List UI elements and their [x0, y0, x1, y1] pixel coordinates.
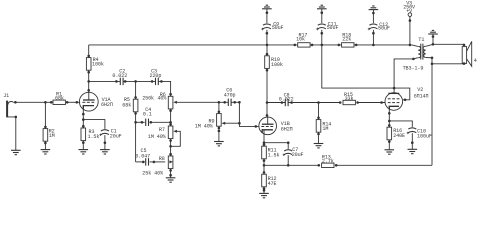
- svg-text:0.1: 0.1: [143, 112, 152, 118]
- wire R9 wiper: [225, 122, 240, 124]
- label C1 20uF: [110, 129, 122, 140]
- wire cathode to C1: [83, 120, 105, 129]
- resistor R13: [318, 163, 338, 167]
- triode V1A: [76, 89, 99, 111]
- ground up (speaker/secondary): [428, 30, 438, 34]
- label C10 100uF: [417, 128, 432, 139]
- svg-text:68k: 68k: [55, 96, 64, 102]
- label R3 1.5k: [88, 129, 100, 140]
- label V1B 6N2P: [281, 121, 293, 132]
- label T1: [418, 37, 424, 43]
- svg-text:20uF: 20uF: [292, 152, 304, 158]
- svg-text:250k: 250k: [142, 96, 154, 102]
- wire C11 branch lower: [321, 30, 323, 45]
- svg-text:0.022: 0.022: [112, 73, 127, 79]
- svg-text:100k: 100k: [271, 62, 283, 68]
- svg-text:0.022: 0.022: [279, 96, 294, 102]
- wire C12 branch lower: [372, 30, 374, 45]
- svg-text:40%: 40%: [157, 96, 167, 102]
- label R2 1M: [49, 129, 55, 140]
- wire cathode to C7 top: [264, 143, 288, 149]
- wire feedback row right: [336, 164, 432, 166]
- svg-text:50uF: 50uF: [378, 26, 390, 32]
- wire feedback riser: [431, 64, 433, 166]
- wire T1 secondary top to speaker: [426, 44, 464, 46]
- wire R10 branch / V1B plate: [266, 45, 268, 117]
- label 4 (speaker impedance): [474, 58, 477, 64]
- label V2 6P14P: [414, 87, 429, 99]
- wire R9 to ground: [218, 132, 220, 142]
- wire T1 secondary bottom: [426, 58, 432, 64]
- wire R14 branch: [318, 103, 320, 136]
- label R6 250k 40%: [142, 92, 167, 102]
- svg-text:1M 40%: 1M 40%: [148, 134, 167, 140]
- wire R14 to ground: [318, 136, 320, 144]
- svg-text:470p: 470p: [224, 93, 236, 99]
- svg-text:33k: 33k: [345, 96, 354, 102]
- wire C5 to R8 wiper: [150, 161, 166, 163]
- wire speaker bottom: [432, 63, 464, 65]
- ground (C1): [100, 150, 110, 154]
- speaker LS1 4ohm: [462, 41, 472, 66]
- svg-text:0.047: 0.047: [135, 153, 150, 159]
- wire V1A plate to C2: [89, 80, 121, 82]
- svg-text:1M: 1M: [49, 133, 55, 139]
- label R16 240E: [393, 128, 405, 139]
- pentode V2: [380, 87, 406, 111]
- potentiometer R7 (mid): [168, 123, 177, 148]
- svg-text:J1: J1: [3, 93, 9, 99]
- wire C1 to ground: [104, 135, 106, 150]
- label R12 47E: [268, 176, 277, 187]
- label C7 20uF: [292, 147, 304, 158]
- label C3 220p: [150, 68, 162, 78]
- wire C3 to R6 top: [158, 81, 170, 96]
- svg-text:100k: 100k: [92, 61, 104, 67]
- resistor R2: [43, 101, 48, 144]
- wire J1 tip to R1: [13, 101, 51, 103]
- label TB3-1-9: [403, 65, 424, 71]
- label V3 250V +V: [403, 1, 416, 15]
- capacitor C12: [368, 12, 378, 47]
- svg-text:100uF: 100uF: [417, 134, 432, 140]
- wire R5 branch: [135, 81, 137, 161]
- resistor R5: [133, 80, 138, 124]
- label C9 50uF: [272, 21, 284, 31]
- wire R9 branch: [218, 102, 220, 131]
- potentiometer R9 (volume): [217, 101, 226, 132]
- potentiometer R6 (treble): [168, 93, 177, 112]
- capacitor C2: [115, 78, 126, 85]
- label R4 100k: [92, 57, 104, 67]
- ground up (C12): [369, 6, 379, 10]
- resistor R1: [50, 100, 69, 104]
- ground up (C11): [317, 5, 327, 9]
- capacitor C9: [261, 11, 271, 34]
- wire R15 to V2 grid: [358, 102, 386, 104]
- wire V1B cathode chain: [263, 130, 265, 194]
- wire rail to T1 primary top: [412, 45, 418, 47]
- capacitor C11: [316, 11, 326, 46]
- wire R7 wiper loop: [171, 131, 181, 146]
- label R1 68k: [55, 92, 64, 102]
- svg-text:+V: +V: [406, 8, 413, 14]
- wire R1 to V1A grid: [67, 101, 80, 103]
- wire R5 to C5: [136, 161, 145, 163]
- wire C10 to ground: [411, 133, 413, 149]
- label R9 1M 40%: [195, 118, 215, 129]
- transformer T1: [412, 35, 434, 65]
- svg-text:6П14П: 6П14П: [414, 93, 429, 99]
- wire V1A plate branch (rail to tube): [88, 45, 90, 93]
- wire speaker ground stem: [432, 34, 434, 44]
- wire V1A cathode down: [82, 106, 84, 150]
- wire R2 branch: [44, 102, 46, 149]
- resistor R16: [387, 112, 392, 143]
- wire C9 branch upper: [266, 9, 268, 23]
- svg-text:22k: 22k: [342, 37, 351, 43]
- label R17 10k: [296, 32, 307, 42]
- svg-text:50uF: 50uF: [272, 25, 284, 31]
- wire C6 to junction: [231, 101, 239, 103]
- wire V1B plate node to C8: [267, 102, 285, 104]
- svg-text:6Н2П: 6Н2П: [101, 102, 113, 108]
- svg-text:220p: 220p: [150, 73, 162, 79]
- capacitor C5: [142, 158, 155, 165]
- capacitor C6: [223, 99, 240, 125]
- svg-text:1.5k: 1.5k: [88, 134, 100, 140]
- resistor R3: [81, 113, 86, 144]
- resistor R11: [262, 141, 267, 166]
- wire tone chain R6-R7-R8: [170, 94, 172, 178]
- ground (R12): [259, 193, 269, 197]
- label C5 0.047: [135, 148, 150, 159]
- resistor R15: [339, 100, 359, 104]
- label C2 0.022: [112, 68, 127, 78]
- wire C8 to R14 node: [288, 102, 340, 104]
- svg-text:R7: R7: [159, 127, 165, 133]
- resistor R12: [262, 171, 267, 192]
- resistor R4: [86, 55, 91, 83]
- capacitor C3: [151, 78, 163, 85]
- label J1: [3, 93, 9, 99]
- wire C11 branch upper: [321, 9, 323, 23]
- svg-text:2.7k: 2.7k: [322, 159, 334, 165]
- ground (R3): [79, 150, 89, 154]
- wire V3 supply stem: [409, 16, 411, 45]
- ground (R2): [41, 150, 51, 154]
- label R5 68k: [122, 97, 131, 108]
- wire C4 row left: [136, 121, 145, 123]
- svg-text:47E: 47E: [268, 181, 277, 187]
- potentiometer R8 (bass): [168, 153, 173, 177]
- label R10 100k: [271, 57, 283, 68]
- label C12 50uF: [378, 22, 390, 32]
- ground (R9): [214, 142, 224, 146]
- wire feedback row left: [264, 164, 319, 166]
- triode V1B: [255, 114, 277, 135]
- svg-text:240E: 240E: [393, 133, 405, 139]
- capacitor C10: [407, 128, 417, 144]
- svg-text:25k 40%: 25k 40%: [142, 170, 164, 176]
- label R11 1.5k: [268, 147, 280, 158]
- svg-text:20uF: 20uF: [110, 133, 122, 139]
- wire V2 plate to T1 primary: [394, 58, 418, 94]
- label R14 1M: [322, 121, 331, 132]
- label R13 2.7k: [322, 154, 334, 164]
- svg-text:T1: T1: [418, 37, 424, 43]
- wire C2 to C3: [123, 80, 155, 82]
- label R7 1M 40%: [148, 127, 167, 140]
- wire V2 cathode chain: [388, 106, 390, 150]
- ground (C10): [408, 149, 418, 153]
- ground (R14): [314, 144, 324, 148]
- wire g2 loop: [394, 88, 410, 100]
- svg-text:68k: 68k: [122, 102, 131, 108]
- resistor R17: [294, 43, 314, 47]
- wire R6 wiper to volume: [176, 101, 228, 103]
- label R18 22k: [342, 32, 351, 42]
- svg-text:6Н2П: 6Н2П: [281, 126, 293, 132]
- wire C9 branch lower: [266, 30, 268, 45]
- svg-text:50uF: 50uF: [327, 25, 339, 31]
- resistor R18: [338, 43, 358, 47]
- ground (R16): [385, 150, 395, 154]
- svg-text:R8: R8: [159, 156, 165, 162]
- wire C4 row right: [150, 121, 171, 123]
- wire B+ rail: [89, 44, 412, 46]
- capacitor C7: [283, 141, 293, 166]
- label C11 50uF: [327, 21, 339, 31]
- resistor R10: [265, 44, 270, 104]
- svg-text:1M 40%: 1M 40%: [195, 124, 214, 130]
- svg-text:4: 4: [474, 58, 477, 64]
- svg-text:TB3-1-9: TB3-1-9: [403, 65, 424, 71]
- capacitor C4: [141, 119, 172, 126]
- svg-text:1M: 1M: [322, 126, 328, 132]
- svg-text:10k: 10k: [296, 37, 305, 43]
- wire J1 sleeve to ground: [8, 117, 16, 150]
- ground (J1 sleeve): [11, 150, 21, 154]
- resistor R14: [316, 117, 321, 136]
- capacitor C1: [99, 130, 109, 144]
- label C4 0.1: [143, 107, 152, 118]
- svg-text:1.5k: 1.5k: [268, 152, 280, 158]
- label R15 33k: [344, 92, 354, 102]
- ground (R8): [166, 178, 176, 182]
- label C8 0.022: [279, 92, 294, 102]
- label V1A 6N2P: [101, 97, 113, 108]
- wire C7 bottom: [287, 155, 289, 165]
- wire g2 feed from rail: [322, 45, 394, 88]
- svg-text:V2: V2: [417, 87, 423, 93]
- wire cathode to C10: [389, 121, 412, 127]
- supply V3 +V 250V: [408, 13, 412, 46]
- wire C12 branch upper: [372, 10, 374, 23]
- ground up (C9): [262, 5, 272, 9]
- connector J1: [7, 101, 17, 119]
- label R8 25k 40%: [142, 156, 164, 177]
- wire junction down to V1B grid: [239, 102, 259, 126]
- label C6 470p: [224, 87, 236, 98]
- capacitor C8: [281, 99, 320, 106]
